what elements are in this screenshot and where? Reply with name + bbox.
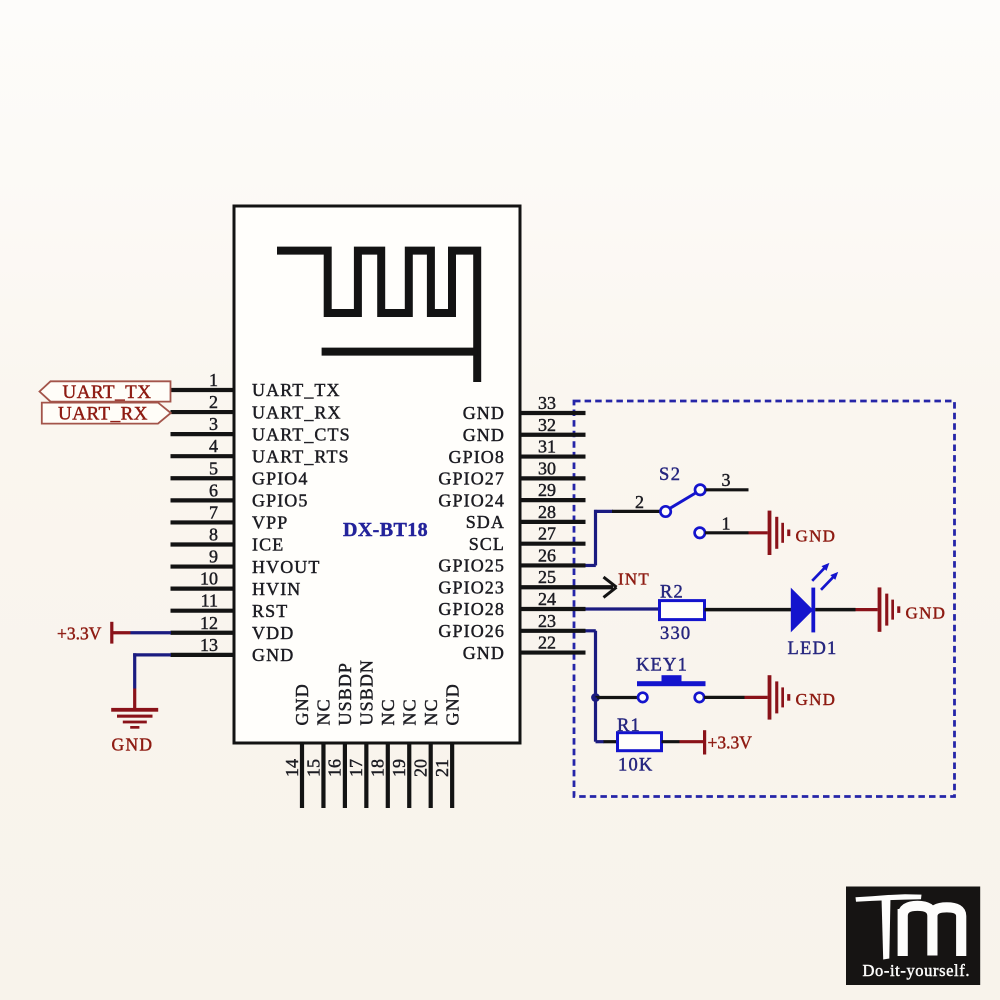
svg-text:10K: 10K [618,756,653,776]
svg-text:29: 29 [538,480,556,500]
svg-text:15: 15 [303,759,323,777]
svg-text:1: 1 [722,514,731,534]
svg-text:21: 21 [432,759,452,777]
svg-text:7: 7 [209,502,218,522]
svg-text:GPIO27: GPIO27 [438,469,505,489]
svg-text:VDD: VDD [252,623,294,643]
svg-text:22: 22 [538,633,556,653]
svg-text:UART_TX: UART_TX [252,380,341,400]
svg-text:10: 10 [200,569,218,589]
svg-text:18: 18 [368,759,388,777]
svg-text:HVIN: HVIN [252,579,301,599]
svg-text:5: 5 [209,458,218,478]
svg-text:NC: NC [314,698,334,725]
svg-text:S2: S2 [659,465,681,485]
svg-text:VPP: VPP [252,513,288,533]
svg-text:UART_TX: UART_TX [63,382,152,403]
svg-text:GND: GND [796,527,837,546]
svg-text:28: 28 [538,502,556,522]
svg-text:ICE: ICE [252,535,284,555]
svg-text:12: 12 [200,613,218,633]
svg-text:UART_RTS: UART_RTS [252,446,350,466]
svg-text:GND: GND [796,690,837,709]
svg-text:330: 330 [660,624,691,644]
svg-text:23: 23 [538,611,556,631]
svg-text:HVOUT: HVOUT [252,557,321,577]
svg-text:NC: NC [421,698,441,725]
svg-text:25: 25 [538,567,556,587]
svg-text:KEY1: KEY1 [636,655,688,675]
svg-text:USBDN: USBDN [357,659,377,726]
svg-text:UART_RX: UART_RX [252,402,342,422]
svg-text:SCL: SCL [469,534,505,554]
svg-text:19: 19 [389,759,409,777]
svg-text:17: 17 [346,759,366,777]
svg-text:GPIO4: GPIO4 [252,468,309,488]
svg-text:USBDP: USBDP [335,662,355,726]
svg-text:GND: GND [442,683,462,725]
svg-text:GND: GND [463,425,505,445]
svg-text:NC: NC [378,698,398,725]
svg-text:RST: RST [252,601,288,621]
svg-text:3: 3 [722,470,731,490]
svg-text:R2: R2 [660,583,684,603]
svg-text:GND: GND [463,643,505,663]
svg-text:DX-BT18: DX-BT18 [343,519,428,541]
svg-text:4: 4 [209,436,218,456]
svg-text:GND: GND [292,683,312,725]
svg-text:R1: R1 [617,716,641,736]
svg-text:30: 30 [538,458,556,478]
svg-text:GND: GND [463,403,505,423]
svg-text:GPIO5: GPIO5 [252,491,309,511]
svg-text:14: 14 [282,759,302,777]
svg-text:6: 6 [209,480,218,500]
svg-text:16: 16 [325,759,345,777]
svg-text:GPIO24: GPIO24 [438,490,505,510]
svg-text:33: 33 [538,393,556,413]
svg-text:INT: INT [618,570,650,589]
svg-text:13: 13 [200,635,218,655]
svg-text:24: 24 [538,589,556,609]
svg-text:GND: GND [252,645,294,665]
svg-text:31: 31 [538,437,556,457]
svg-text:11: 11 [201,591,218,611]
svg-text:GND: GND [906,604,947,623]
svg-text:GND: GND [112,735,154,755]
svg-text:UART_CTS: UART_CTS [252,424,351,444]
svg-text:LED1: LED1 [788,639,838,659]
svg-text:GPIO8: GPIO8 [448,447,505,467]
svg-text:8: 8 [209,524,218,544]
svg-text:26: 26 [538,545,556,565]
svg-text:GPIO23: GPIO23 [438,577,505,597]
svg-text:27: 27 [538,524,556,544]
svg-text:20: 20 [411,759,431,777]
svg-text:32: 32 [538,415,556,435]
svg-text:Do-it-yourself.: Do-it-yourself. [863,961,971,980]
svg-text:GPIO28: GPIO28 [438,599,505,619]
svg-text:3: 3 [209,414,218,434]
svg-text:1: 1 [209,370,218,390]
svg-text:9: 9 [209,547,218,567]
svg-text:GPIO25: GPIO25 [438,556,505,576]
svg-text:+3.3V: +3.3V [57,624,102,644]
svg-text:2: 2 [209,392,218,412]
svg-text:NC: NC [399,698,419,725]
svg-text:UART_RX: UART_RX [58,403,148,424]
svg-text:+3.3V: +3.3V [708,732,753,752]
svg-text:2: 2 [635,492,644,512]
svg-text:GPIO26: GPIO26 [438,621,505,641]
svg-text:SDA: SDA [466,512,505,532]
